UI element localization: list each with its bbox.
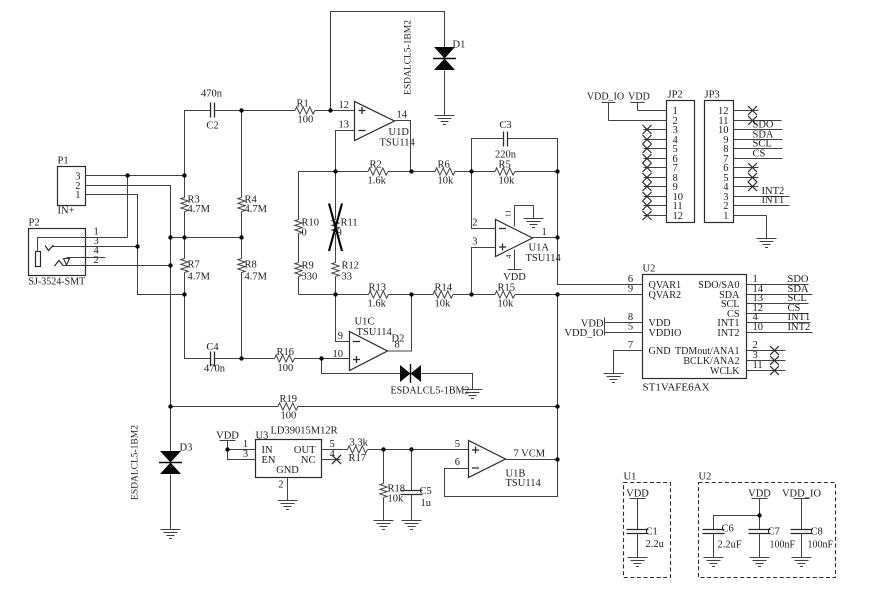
resistor R15 10k [495,291,515,298]
resistor R17 3.3k [322,449,348,451]
svg-text:2: 2 [472,218,477,229]
svg-text:ESDALCL5-1BM2: ESDALCL5-1BM2 [404,20,414,95]
svg-text:7 VCM: 7 VCM [514,449,546,460]
svg-text:4.7M: 4.7M [245,204,268,215]
svg-text:100: 100 [298,115,314,126]
svg-text:QVAR2: QVAR2 [649,290,682,301]
ground below C6 [704,557,724,559]
svg-text:VDD_IO: VDD_IO [587,92,624,103]
svg-text:4.7M: 4.7M [245,272,268,283]
svg-text:R11: R11 [341,218,358,229]
svg-text:3.3k: 3.3k [350,438,369,449]
svg-text:P2: P2 [29,218,40,229]
ground below C1 [628,557,648,559]
svg-text:TSU114: TSU114 [506,478,542,489]
svg-text:U1A: U1A [529,243,550,254]
svg-text:1: 1 [75,190,80,201]
svg-text:C4: C4 [206,342,219,353]
svg-text:100nF: 100nF [770,540,796,551]
svg-text:VDD: VDD [216,431,239,442]
wire R1 to U1D pin12 [331,110,355,112]
svg-text:470n: 470n [204,364,226,375]
wire U1B feedback [445,295,558,497]
svg-text:12: 12 [339,100,350,111]
capacitor C6 2.2uF [714,516,760,530]
svg-text:470n: 470n [201,89,223,100]
svg-text:R13: R13 [369,283,387,294]
svg-text:IN+: IN+ [58,206,75,217]
svg-text:9: 9 [338,331,343,342]
no-connect X on NC [332,455,341,464]
svg-text:10: 10 [753,322,764,333]
svg-text:VDDIO: VDDIO [649,328,682,339]
svg-text:6: 6 [455,457,460,468]
svg-text:13: 13 [339,120,350,131]
svg-text:33: 33 [342,272,353,283]
svg-text:R6: R6 [438,160,450,171]
svg-text:5: 5 [455,439,460,450]
svg-text:VDD: VDD [628,92,650,103]
svg-text:3: 3 [472,237,477,248]
wire R7 bottom to C4 line [185,295,211,359]
P2 ring contact [55,261,64,267]
svg-text:5: 5 [628,322,633,333]
svg-text:C6: C6 [722,524,734,535]
diode D3 ESDALCL5-1BM2 [160,451,181,463]
ground below JP3 [757,238,777,240]
svg-text:1: 1 [542,227,547,238]
resistor R1 100 [242,110,296,112]
resistor R10 0 [298,172,300,220]
svg-text:EN: EN [262,455,276,466]
svg-text:C3: C3 [499,120,511,131]
svg-text:VDD: VDD [748,489,771,500]
svg-text:INT2: INT2 [788,322,811,333]
svg-text:9: 9 [628,284,633,295]
svg-text:100nF: 100nF [808,540,834,551]
svg-text:JP2: JP2 [668,90,683,101]
svg-text:10k: 10k [499,176,516,187]
dashed group U1 [624,483,671,578]
svg-text:R7: R7 [188,260,200,271]
svg-text:R2: R2 [370,160,382,171]
svg-text:14: 14 [397,110,408,121]
wire U1D pin13 feedback [336,131,355,172]
svg-text:C2: C2 [206,121,218,132]
svg-text:U2: U2 [643,264,656,275]
wire VDD to IN/EN [228,441,256,460]
resistor R9 330 [295,263,302,277]
wire P1 pin1 down [86,195,185,295]
ground below C5 [402,520,422,522]
wire bias row [171,237,242,239]
DNP cross over R11 [329,204,342,252]
svg-text:100: 100 [278,363,294,374]
svg-text:0: 0 [302,228,307,239]
svg-text:10k: 10k [435,299,452,310]
resistor R19 100 [171,406,279,408]
svg-text:11: 11 [753,360,763,371]
svg-text:JP3: JP3 [705,90,720,101]
U3 NC stub [322,459,341,461]
svg-text:330: 330 [302,272,318,283]
connector JP3 [705,101,734,223]
resistor R18 10k [383,450,385,484]
svg-text:INT1: INT1 [762,195,785,206]
wire U1D input to D1 [331,12,445,111]
svg-text:12: 12 [673,211,684,222]
svg-text:P1: P1 [58,156,69,167]
junction dots [125,173,129,177]
P2 switch contact [64,259,70,266]
svg-text:4: 4 [504,254,513,258]
resistor R3 4.7M [184,176,186,198]
svg-text:R9: R9 [302,261,314,272]
capacitor C5 1u [411,450,413,491]
ground below U3 [278,500,298,502]
svg-text:NC: NC [301,455,316,466]
svg-text:GND: GND [276,465,299,476]
svg-text:10k: 10k [498,299,515,310]
ground below C7 [750,557,770,559]
wire U1A output pin1 [533,237,558,239]
ground below D2 [463,389,483,391]
svg-text:220n: 220n [495,150,517,161]
capacitor C3 220n [472,139,504,172]
regulator U3 LD39015M12R [256,440,322,478]
P2 pin1 wire [38,238,128,252]
diode D1 ESDALCL5-1BM2 [434,47,455,59]
svg-text:R8: R8 [245,260,257,271]
sensor U2 ST1VAFE6AX [643,275,747,379]
svg-text:VDD_IO: VDD_IO [564,328,603,339]
svg-text:WCLK: WCLK [710,366,740,377]
P2 pin2 wire [63,265,171,267]
resistor R12 33 [332,263,339,277]
resistor R2 1.6k [299,171,369,173]
svg-text:VDD: VDD [626,489,649,500]
svg-text:C7: C7 [768,527,780,538]
wire P1 pin2 down left rail [86,186,171,452]
svg-text:11: 11 [504,210,513,217]
ground below D1 [435,115,455,117]
svg-text:ESDALCL5-1BM2: ESDALCL5-1BM2 [391,386,470,397]
wire P1 pin3 to R3 top [86,175,185,177]
svg-text:C8: C8 [811,527,823,538]
svg-text:VDD_IO: VDD_IO [782,489,821,500]
svg-text:SJ-3524-SMT: SJ-3524-SMT [29,277,86,288]
wire U1D output pin14 [395,121,411,172]
svg-text:TSU114: TSU114 [357,327,393,338]
svg-text:7: 7 [628,340,633,351]
resistor R16 100 [275,355,295,362]
wire U1A pin3 [472,248,496,295]
svg-text:U2: U2 [699,472,712,483]
svg-text:D3: D3 [180,443,193,454]
capacitor C8 100nF [801,499,803,530]
svg-text:D1: D1 [453,40,466,51]
svg-text:4.7M: 4.7M [188,204,211,215]
op-amp U1B TSU114 [469,441,506,478]
resistor R6 10k [435,168,455,175]
resistor R13 1.6k [299,294,369,296]
op-amp U1A TSU114 [496,220,533,257]
svg-text:R19: R19 [280,394,298,405]
svg-text:VDD: VDD [503,272,526,283]
capacitor C2 470n [185,111,211,176]
svg-text:LD39015M12R: LD39015M12R [271,426,338,437]
wire D3 to ground [170,475,172,530]
capacitor C7 100nF [759,499,761,530]
svg-text:INT2: INT2 [717,328,739,339]
svg-text:2.2u: 2.2u [646,539,665,550]
capacitor C4 470n [210,352,212,367]
capacitor C1 2.2u [637,499,639,530]
wire pin3 branch down to P2 pin1 [127,176,129,238]
svg-text:2: 2 [278,480,283,491]
wire D2 to ground [422,374,473,390]
svg-text:R16: R16 [277,347,295,358]
wire D1 to ground [444,71,446,116]
svg-text:5: 5 [330,439,335,450]
dashed group U2 [699,483,836,578]
P2 sleeve contact [36,252,41,267]
svg-text:1.6k: 1.6k [368,299,387,310]
resistor R5 10k [495,168,515,175]
wire U1B output VCM [506,459,558,461]
ground below U2 GND [604,373,624,375]
svg-text:D2: D2 [392,334,405,345]
svg-text:2: 2 [94,255,99,266]
svg-text:R5: R5 [499,160,511,171]
svg-text:1.6k: 1.6k [368,176,387,187]
svg-text:R14: R14 [435,283,453,294]
svg-text:U1C: U1C [355,317,375,328]
diode D2 ESDALCL5-1BM2 [400,365,411,382]
ground below R18 [374,520,394,522]
connector JP2 [667,101,695,223]
svg-text:TSU114: TSU114 [526,253,562,264]
svg-text:10k: 10k [438,176,455,187]
U1A pin4 VDD [514,250,516,270]
svg-text:C1: C1 [646,527,658,538]
resistor R4 4.7M [241,111,243,198]
svg-text:U3: U3 [256,431,269,442]
U1A pin11 to ground [515,206,534,227]
svg-text:1: 1 [723,211,728,222]
ground below D3 [161,529,181,531]
svg-text:R1: R1 [297,99,309,110]
resistor R7 4.7M [184,238,186,259]
connector P1 [58,167,86,206]
svg-text:CS: CS [753,149,766,160]
op-amp U1C TSU114 [350,332,388,371]
op-amp U1D TSU114 [355,102,395,141]
svg-text:ESDALCL5-1BM2: ESDALCL5-1BM2 [131,425,141,500]
P2 pin4 stub [67,257,106,259]
svg-text:2.2uF: 2.2uF [718,540,742,551]
svg-text:GND: GND [649,346,671,357]
wire R8 bottom [241,295,243,359]
ground below C8 [792,557,812,559]
connector P2 SJ-3524-SMT [29,229,86,276]
U2 GND pin wire [614,351,643,374]
svg-text:10: 10 [333,349,344,360]
wire JP3 pin1 to ground [766,216,768,239]
wire U1C pin9 feedback [336,295,350,342]
svg-text:4.7M: 4.7M [188,272,211,283]
svg-text:1u: 1u [421,498,432,509]
P2 pin3 wire [53,246,138,248]
svg-text:C5: C5 [420,486,432,497]
wire U1A pin2 [472,172,496,229]
svg-text:ST1VAFE6AX: ST1VAFE6AX [643,382,710,394]
svg-text:U1: U1 [624,472,637,483]
wire D2 branch [322,359,401,374]
P2 tip contact [45,245,54,251]
svg-text:100: 100 [281,411,297,422]
resistor R11 0 (DNP) [335,172,337,220]
svg-text:U1D: U1D [389,127,410,138]
svg-text:3: 3 [243,449,248,460]
svg-text:R12: R12 [342,261,360,272]
wire U3 GND pin2 [287,478,289,501]
resistor R8 4.7M [241,238,243,259]
resistor R14 10k [433,291,453,298]
svg-text:R17: R17 [349,453,367,464]
wire U1C output pin8 [388,295,412,352]
svg-text:R15: R15 [498,283,516,294]
